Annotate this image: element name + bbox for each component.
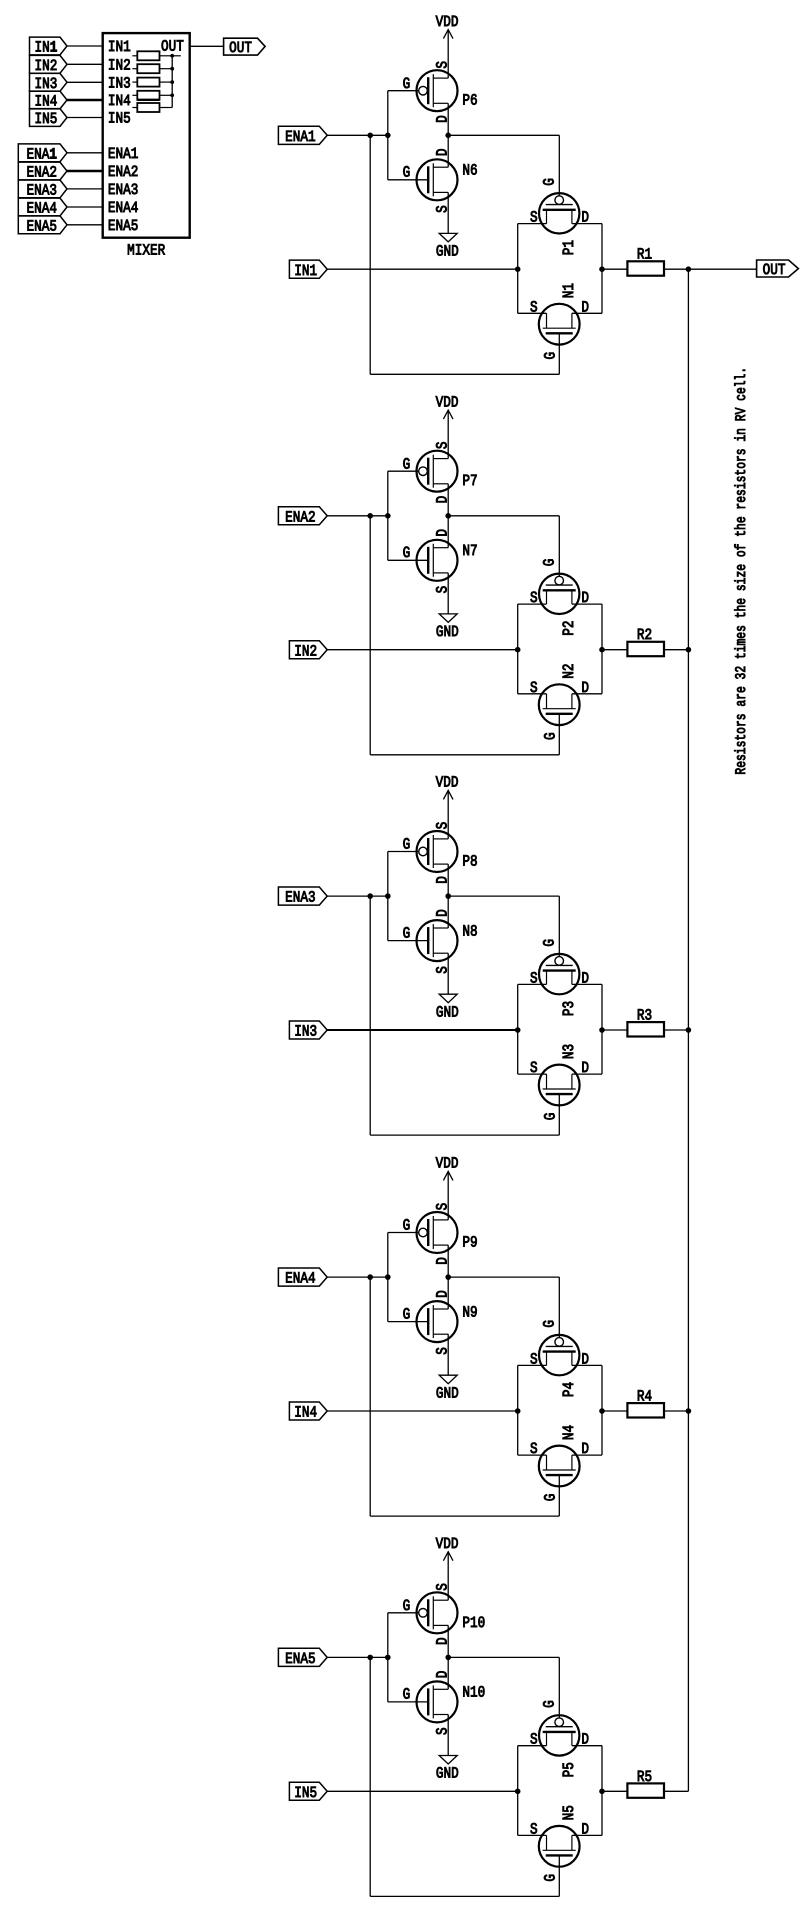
junction node ENAB5 (inverter output) [445, 1655, 451, 1661]
input port ENA4 (mixer) [18, 198, 67, 216]
gate bubble of P6 [419, 86, 428, 95]
gate wire of P7 [388, 470, 419, 472]
wire N1 gate lead [558, 333, 560, 374]
wire ENA1 to MIXER pin [67, 152, 103, 154]
power VDD arrow symbol (cell 1) [443, 30, 453, 39]
right contact stub of N4 [571, 1455, 573, 1470]
wire N4 gate lead [558, 1475, 560, 1516]
gate wire of P9 [388, 1232, 419, 1234]
input port ENA4 [278, 1268, 327, 1286]
transistor P2 (PMOS, pass gate) [539, 574, 579, 614]
left contact stub of N2 [546, 694, 548, 709]
svg-text:IN2: IN2 [108, 56, 131, 74]
svg-text:G: G [542, 352, 560, 360]
top contact stub of P6 [433, 77, 448, 79]
transistor N8 (NMOS, inverter) [388, 920, 458, 961]
svg-text:IN1: IN1 [108, 38, 131, 56]
wire inverter output to P4 gate [448, 1276, 559, 1278]
input port IN1 [289, 260, 327, 278]
svg-text:ENA2: ENA2 [285, 508, 315, 526]
input port ENA3 [278, 887, 327, 905]
junction IN1 / pass-gate left rail [515, 266, 521, 272]
left contact stub of P3 [546, 971, 548, 985]
channel plate of P9 [432, 1216, 434, 1249]
wire mixer resistor 5 to bus [160, 107, 173, 109]
svg-text:S: S [434, 966, 452, 974]
transistor N1 (NMOS, pass gate) [539, 304, 580, 345]
gate plate of P9 [427, 1219, 429, 1246]
gate plate of N10 [427, 1688, 429, 1715]
svg-text:IN3: IN3 [108, 74, 131, 92]
channel plate of N3 [543, 1088, 576, 1090]
wire stub to mixer resistor 4 [132, 94, 137, 96]
svg-text:G: G [403, 1217, 411, 1235]
wire pass-gate left rail (cell 5) [517, 1746, 519, 1836]
right contact stub of N5 [571, 1835, 573, 1850]
wire pass gate to R3 [602, 1029, 627, 1031]
wire IN3 to MIXER pin [67, 81, 103, 83]
channel plate of N8 [432, 924, 434, 957]
svg-text:P3: P3 [560, 1001, 578, 1016]
wire output bus (vertical) [687, 269, 689, 1791]
wire N2 S lead [518, 693, 547, 695]
transistor P6 (PMOS, inverter) [388, 70, 458, 111]
junction mixer bus 1 [170, 54, 174, 58]
junction ENA5 / N5 gate branch [367, 1655, 373, 1661]
wire pass-gate right rail (cell 1) [601, 224, 603, 314]
svg-text:P8: P8 [462, 853, 477, 871]
svg-text:G: G [403, 1597, 411, 1615]
wire N9 source to GND [447, 1334, 449, 1375]
wire ENA3 to MIXER pin [67, 188, 103, 190]
input port IN2 [289, 641, 327, 659]
svg-text:N2: N2 [560, 664, 578, 679]
gate wire of P8 [388, 851, 419, 853]
wire N4 S lead [518, 1454, 547, 1456]
wire ENA3 down to N3 gate rail [369, 896, 371, 1135]
svg-text:G: G [541, 178, 559, 186]
right contact stub of N2 [571, 694, 573, 709]
top contact stub of N7 [433, 547, 448, 549]
gate plate of N5 [546, 1854, 573, 1856]
wire IN5 to MIXER pin [67, 117, 103, 119]
wire pass-gate right rail (cell 2) [601, 604, 603, 694]
junction ENA1 / gate rail [385, 133, 391, 139]
wire stub to mixer resistor 5 [132, 107, 137, 109]
bottom contact stub of N7 [433, 572, 448, 574]
junction IN4 / pass-gate left rail [515, 1408, 521, 1414]
gate plate of N8 [427, 927, 429, 954]
wire N1 D lead [572, 312, 602, 314]
svg-text:IN5: IN5 [108, 110, 131, 128]
wire gate rail ENA2 inverter input [387, 471, 389, 560]
gate wire of N7 [388, 559, 427, 561]
gate bubble of P10 [419, 1609, 428, 1618]
svg-text:GND: GND [436, 243, 459, 261]
bottom contact stub of P7 [433, 483, 448, 485]
right contact stub of P1 [571, 210, 573, 224]
svg-text:ENA3: ENA3 [285, 889, 315, 907]
right contact stub of N1 [571, 313, 573, 328]
channel plate of N7 [432, 544, 434, 577]
gate plate of N4 [546, 1474, 573, 1476]
wire P4 S lead [518, 1364, 547, 1366]
output port OUT (mixer) [224, 38, 266, 55]
wire pass gate to R1 [602, 268, 627, 270]
wire P2 S lead [518, 603, 547, 605]
wire P3 D lead [572, 983, 602, 985]
input port IN1 (mixer) [30, 37, 68, 55]
svg-text:S: S [434, 1347, 452, 1355]
gate bubble of P7 [419, 467, 428, 476]
wire pass-gate right rail (cell 5) [601, 1746, 603, 1836]
wire VDD to P7 source [447, 410, 449, 459]
ground symbol GND (cell 5) [439, 1756, 457, 1765]
resistor (mixer thumbnail) 2 [137, 64, 159, 73]
wire pass-gate right rail (cell 4) [601, 1365, 603, 1455]
ground symbol GND (cell 2) [439, 614, 457, 623]
bottom contact stub of P8 [433, 863, 448, 865]
svg-text:D: D [434, 1290, 452, 1298]
svg-text:Resistors are 32 times the siz: Resistors are 32 times the size of the r… [734, 367, 750, 775]
wire pass-gate right rail (cell 3) [601, 984, 603, 1074]
svg-text:R3: R3 [637, 1007, 652, 1025]
wire pass gate to R5 [602, 1790, 627, 1792]
wire P5 S lead [518, 1745, 547, 1747]
wire mixer resistor 3 to bus [160, 81, 173, 83]
svg-text:IN2: IN2 [34, 57, 57, 75]
wire ENA5 to inverter gates [327, 1656, 388, 1658]
wire down to P5 gate [558, 1657, 560, 1718]
gate wire of N6 [388, 179, 427, 181]
output port OUT [757, 260, 799, 277]
svg-text:MIXER: MIXER [127, 241, 165, 259]
bottom contact stub of N8 [433, 952, 448, 954]
input port IN5 (mixer) [30, 109, 68, 127]
wire ENA5 to MIXER pin [67, 224, 103, 226]
wire IN1 to MIXER pin [67, 45, 103, 47]
gate bubble of P8 [419, 847, 428, 856]
svg-text:D: D [434, 496, 452, 504]
bottom contact stub of P10 [433, 1624, 448, 1626]
wire ENA4 down to N4 gate rail [369, 1277, 371, 1516]
wire N5 S lead [518, 1834, 547, 1836]
svg-text:ENA4: ENA4 [285, 1270, 315, 1288]
transistor P3 (PMOS, pass gate) [539, 954, 579, 994]
wire ENA1 to inverter gates [327, 134, 388, 136]
svg-text:ENA3: ENA3 [26, 182, 56, 200]
svg-text:GND: GND [436, 623, 459, 641]
transistor P7 (PMOS, inverter) [388, 451, 458, 492]
transistor P8 (PMOS, inverter) [388, 831, 458, 872]
wire R4 to output bus [664, 1410, 688, 1412]
gate plate of N1 [546, 332, 573, 334]
junction pass-gate output / R2 [599, 647, 605, 653]
transistor N4 (NMOS, pass gate) [539, 1446, 580, 1487]
resistor R4 [627, 1403, 664, 1417]
junction ENA2 / N2 gate branch [367, 513, 373, 519]
gate plate of P5 [546, 1726, 573, 1728]
channel plate of P3 [543, 969, 576, 971]
top contact stub of P10 [433, 1599, 448, 1601]
wire pass-gate left rail (cell 4) [517, 1365, 519, 1455]
wire pass gate to R4 [602, 1410, 627, 1412]
transistor N5 (NMOS, pass gate) [539, 1826, 580, 1867]
svg-text:GND: GND [436, 1003, 459, 1021]
wire ENA2 to inverter gates [327, 515, 388, 517]
svg-text:IN4: IN4 [294, 1404, 317, 1422]
svg-text:R2: R2 [637, 626, 652, 644]
junction ENA3 / N3 gate branch [367, 893, 373, 899]
top contact stub of N6 [433, 166, 448, 168]
wire down to P2 gate [558, 516, 560, 577]
gate plate of N9 [427, 1308, 429, 1335]
top contact stub of P9 [433, 1219, 448, 1221]
svg-text:ENA2: ENA2 [108, 163, 138, 181]
svg-text:P10: P10 [462, 1614, 485, 1632]
wire ENA4 to MIXER pin [67, 206, 103, 208]
svg-text:IN1: IN1 [34, 39, 57, 57]
svg-text:ENA1: ENA1 [26, 145, 56, 163]
input port ENA5 [278, 1648, 327, 1666]
wire N3 D lead [572, 1073, 602, 1075]
svg-text:G: G [403, 1305, 411, 1323]
svg-text:S: S [434, 1727, 452, 1735]
svg-text:N7: N7 [462, 542, 477, 560]
bottom contact stub of N9 [433, 1333, 448, 1335]
svg-text:R4: R4 [637, 1388, 652, 1406]
gate plate of N6 [427, 166, 429, 193]
junction node ENAB1 (inverter output) [445, 133, 451, 139]
input port ENA1 [278, 126, 327, 144]
svg-text:G: G [403, 455, 411, 473]
channel plate of N5 [543, 1849, 576, 1851]
svg-text:IN1: IN1 [294, 262, 317, 280]
gate plate of P1 [546, 204, 573, 206]
svg-text:G: G [542, 1874, 560, 1882]
power VDD arrow symbol (cell 5) [443, 1552, 453, 1561]
svg-text:ENA5: ENA5 [285, 1650, 315, 1668]
junction pass-gate output / R5 [599, 1789, 605, 1795]
svg-text:G: G [403, 1686, 411, 1704]
resistor (mixer thumbnail) 3 [137, 78, 159, 87]
gate plate of N2 [546, 713, 573, 715]
left contact stub of P2 [546, 590, 548, 604]
svg-text:G: G [542, 1494, 560, 1502]
svg-text:S: S [434, 586, 452, 594]
right contact stub of N3 [571, 1074, 573, 1089]
left contact stub of P1 [546, 210, 548, 224]
input port IN4 [289, 1402, 327, 1420]
wire MIXER OUT pin to OUT port [190, 45, 224, 47]
bottom contact stub of N6 [433, 191, 448, 193]
wire down to P3 gate [558, 896, 560, 957]
svg-text:VDD: VDD [436, 393, 459, 411]
wire N5 D lead [572, 1834, 602, 1836]
input port ENA1 (mixer) [18, 144, 67, 162]
junction mixer bus 3 [170, 80, 174, 84]
gate wire of P6 [388, 90, 419, 92]
channel plate of P5 [543, 1731, 576, 1733]
channel plate of P1 [543, 209, 576, 211]
wire IN4 to pass gate [327, 1410, 518, 1412]
wire pass-gate left rail (cell 1) [517, 224, 519, 314]
svg-text:ENA4: ENA4 [26, 200, 56, 218]
svg-text:P4: P4 [560, 1382, 578, 1397]
transistor N6 (NMOS, inverter) [388, 159, 458, 200]
svg-text:ENA3: ENA3 [108, 181, 138, 199]
wire inverter output to P2 gate [448, 515, 559, 517]
svg-text:G: G [403, 836, 411, 854]
wire mixer resistor 2 to bus [160, 68, 173, 70]
svg-text:S: S [434, 1583, 452, 1591]
gate plate of P10 [427, 1599, 429, 1626]
wire P4 D lead [572, 1364, 602, 1366]
bottom contact stub of N10 [433, 1714, 448, 1716]
ground symbol GND (cell 1) [439, 233, 457, 242]
gate wire of N10 [388, 1701, 427, 1703]
wire IN5 to pass gate [327, 1790, 518, 1792]
svg-text:P9: P9 [462, 1234, 477, 1252]
svg-text:D: D [434, 148, 452, 156]
transistor P10 (PMOS, inverter) [388, 1592, 458, 1633]
wire down to P1 gate [558, 135, 560, 196]
junction pass-gate output / R1 [599, 266, 605, 272]
wire inverter output to P1 gate [448, 134, 559, 136]
transistor N10 (NMOS, inverter) [388, 1681, 458, 1722]
gate plate of P6 [427, 77, 429, 104]
svg-text:VDD: VDD [436, 13, 459, 31]
svg-text:G: G [541, 1320, 559, 1328]
wire P10 drain to N10 drain [447, 1625, 449, 1689]
svg-text:S: S [434, 441, 452, 449]
svg-text:N10: N10 [462, 1684, 485, 1702]
input port IN4 (mixer) [30, 91, 68, 109]
svg-text:OUT: OUT [763, 261, 786, 279]
svg-text:N8: N8 [462, 922, 477, 940]
input port ENA5 (mixer) [18, 216, 67, 234]
transistor P5 (PMOS, pass gate) [539, 1715, 579, 1755]
power VDD arrow symbol (cell 2) [443, 410, 453, 419]
wire pass gate to R2 [602, 649, 627, 651]
junction pass-gate output / R3 [599, 1027, 605, 1033]
channel plate of N2 [543, 708, 576, 710]
junction ENA4 / gate rail [385, 1274, 391, 1280]
gate bubble of P4 [555, 1338, 564, 1347]
wire P7 drain to N7 drain [447, 484, 449, 548]
wire N8 source to GND [447, 953, 449, 994]
resistor (mixer thumbnail) 5 [137, 103, 159, 112]
svg-text:IN3: IN3 [34, 75, 57, 93]
gate plate of P8 [427, 838, 429, 865]
left contact stub of N1 [546, 313, 548, 328]
transistor N2 (NMOS, pass gate) [539, 684, 580, 725]
gate plate of N3 [546, 1093, 573, 1095]
wire IN3 to pass gate [327, 1029, 518, 1031]
wire R5 to output bus [664, 1790, 688, 1792]
right contact stub of P2 [571, 590, 573, 604]
wire inverter output to P5 gate [448, 1656, 559, 1658]
wire down to P4 gate [558, 1277, 560, 1338]
junction output bus / R4 [686, 1408, 692, 1414]
junction ENA1 / N1 gate branch [367, 133, 373, 139]
svg-text:D: D [434, 1671, 452, 1679]
svg-text:D: D [434, 909, 452, 917]
wire N4 D lead [572, 1454, 602, 1456]
svg-text:VDD: VDD [436, 1155, 459, 1173]
input port IN3 (mixer) [30, 73, 68, 91]
svg-text:N4: N4 [560, 1425, 578, 1440]
top contact stub of N9 [433, 1308, 448, 1310]
left contact stub of N4 [546, 1455, 548, 1470]
wire mixer resistor 1 to bus [160, 55, 173, 57]
junction IN3 / pass-gate left rail [515, 1027, 521, 1033]
right contact stub of P3 [571, 971, 573, 985]
wire gate rail ENA4 inverter input [387, 1233, 389, 1322]
svg-text:IN3: IN3 [294, 1023, 317, 1041]
gate plate of P3 [546, 964, 573, 966]
wire R2 to output bus [664, 649, 688, 651]
junction IN5 / pass-gate left rail [515, 1789, 521, 1795]
svg-text:N3: N3 [560, 1044, 578, 1059]
svg-text:D: D [434, 876, 452, 884]
junction node ENAB4 (inverter output) [445, 1274, 451, 1280]
gate wire of N9 [388, 1321, 427, 1323]
wire VDD to P8 source [447, 790, 449, 839]
svg-text:ENA1: ENA1 [285, 128, 315, 146]
right contact stub of P5 [571, 1732, 573, 1746]
left contact stub of P5 [546, 1732, 548, 1746]
svg-text:G: G [542, 732, 560, 740]
wire bottom rail to N1 gate [370, 373, 559, 375]
wire P2 D lead [572, 603, 602, 605]
wire P6 drain to N6 drain [447, 103, 449, 167]
junction ENA2 / gate rail [385, 513, 391, 519]
svg-text:P6: P6 [462, 92, 477, 110]
svg-text:P1: P1 [560, 240, 578, 255]
channel plate of N10 [432, 1685, 434, 1718]
channel plate of N1 [543, 327, 576, 329]
junction pass-gate output / R4 [599, 1408, 605, 1414]
wire gate rail ENA5 inverter input [387, 1613, 389, 1702]
right contact stub of P4 [571, 1352, 573, 1366]
power VDD arrow symbol (cell 3) [443, 790, 453, 799]
wire P1 S lead [518, 223, 547, 225]
gate plate of N7 [427, 547, 429, 574]
svg-text:S: S [434, 1203, 452, 1211]
top contact stub of P7 [433, 458, 448, 460]
svg-text:G: G [541, 559, 559, 567]
wire P8 drain to N8 drain [447, 864, 449, 928]
wire P3 S lead [518, 983, 547, 985]
wire IN2 to pass gate [327, 649, 518, 651]
wire mixer resistor 4 to bus [160, 94, 173, 96]
top contact stub of N8 [433, 927, 448, 929]
wire N5 gate lead [558, 1855, 560, 1896]
wire mixer bus stub [172, 55, 181, 57]
svg-text:ENA4: ENA4 [108, 199, 138, 217]
transistor P9 (PMOS, inverter) [388, 1212, 458, 1253]
wire ENA1 down to N1 gate rail [369, 135, 371, 374]
input port ENA2 (mixer) [18, 162, 67, 180]
wire stub to mixer resistor 3 [132, 81, 137, 83]
wire N3 gate lead [558, 1094, 560, 1135]
top contact stub of P8 [433, 838, 448, 840]
wire VDD to P9 source [447, 1171, 449, 1220]
wire N1 S lead [518, 312, 547, 314]
junction output bus / R3 [686, 1027, 692, 1033]
svg-text:G: G [541, 939, 559, 947]
